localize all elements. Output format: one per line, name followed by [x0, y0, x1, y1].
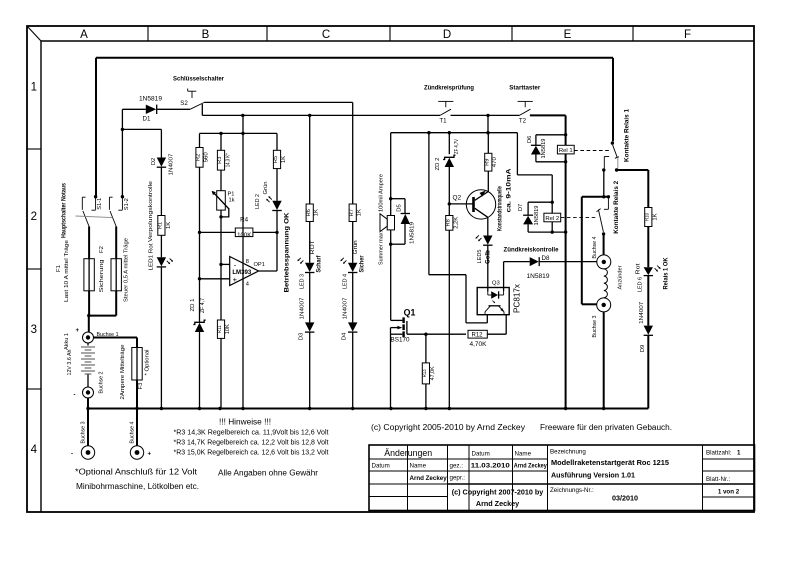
- LED6 rot: [647, 227, 649, 268]
- svg-text:*R3 14,3K Regelbereich ca. 11: *R3 14,3K Regelbereich ca. 11,9Volt bis …: [174, 428, 330, 437]
- svg-text:Zündkreiskontrolle: Zündkreiskontrolle: [504, 246, 559, 253]
- svg-text:(c) Copyright 2005-2010 by Ar: (c) Copyright 2005-2010 by Arnd Zeckey: [371, 423, 525, 432]
- wire S1-2 to D1: [121, 109, 123, 196]
- svg-text:Rel 2: Rel 2: [545, 216, 559, 222]
- svg-text:D9: D9: [640, 345, 646, 353]
- LED4 column: resistor R7: [349, 204, 356, 222]
- svg-text:3: 3: [31, 324, 37, 336]
- wire igniter return: [582, 196, 609, 198]
- svg-text:4: 4: [246, 282, 249, 288]
- svg-text:LED5: LED5: [477, 249, 483, 264]
- bottom bus wire: [88, 408, 648, 410]
- svg-text:D7: D7: [518, 204, 524, 211]
- svg-text:1K: 1K: [281, 156, 287, 163]
- svg-text:1N5819: 1N5819: [541, 139, 547, 159]
- resistor R1: [158, 216, 165, 236]
- title block: [369, 445, 755, 511]
- wire feed line R2/R3/R5: [200, 132, 278, 134]
- svg-text:gez.:: gez.:: [450, 463, 464, 470]
- top supply wire: [96, 57, 613, 59]
- fuse F1: [88, 227, 90, 259]
- svg-text:R7: R7: [349, 209, 355, 216]
- svg-text:100mil Ampere: 100mil Ampere: [379, 173, 385, 212]
- LED1 rot: [160, 235, 162, 257]
- svg-text:Betriebsspannung OK: Betriebsspannung OK: [284, 212, 291, 293]
- svg-text:T1: T1: [439, 118, 447, 125]
- svg-text:D1: D1: [143, 116, 151, 123]
- socket Buchse 4 (output): [136, 409, 138, 446]
- wire rel1 NO to R10: [617, 169, 649, 171]
- relay coil Rel 1: [557, 145, 574, 154]
- svg-text:Sicherung: Sicherung: [99, 260, 105, 293]
- diode D4 1N4007: [348, 322, 357, 331]
- svg-text:Arnd Zeckey: Arnd Zeckey: [514, 463, 547, 470]
- wire test line: [391, 132, 518, 134]
- diode D9 1N4007: [644, 326, 653, 335]
- svg-text:Arnd Zeckey: Arnd Zeckey: [410, 475, 448, 482]
- svg-text:F3: F3: [138, 382, 144, 390]
- svg-text:R11: R11: [217, 325, 223, 333]
- svg-text:Last 10 A mittel Träge: Last 10 A mittel Träge: [64, 239, 70, 302]
- relay 1 contact: [612, 58, 614, 142]
- svg-text:100K: 100K: [237, 232, 251, 239]
- wire S2 lower output: [201, 104, 203, 115]
- resistor R11: [217, 320, 224, 338]
- svg-text:S1-1: S1-1: [97, 198, 103, 210]
- svg-text:*R3 14,7K Regelbereich ca. 12: *R3 14,7K Regelbereich ca. 12,2 Volt bis…: [174, 438, 330, 447]
- svg-text:F1: F1: [56, 265, 62, 272]
- switch S1-1: [94, 195, 97, 198]
- wire buzzer to Q1 drain: [390, 244, 392, 320]
- svg-text:Datum: Datum: [472, 451, 490, 458]
- wire R3 column down: [220, 210, 222, 320]
- svg-text:4,70K: 4,70K: [470, 341, 488, 348]
- svg-text:LED 6: LED 6: [638, 276, 644, 292]
- wire R2 column down: [199, 167, 201, 322]
- socket Buchse 4 (igniter): [597, 255, 611, 269]
- igniter coil Anzuender: [604, 269, 608, 298]
- trimmer P1: [220, 170, 222, 191]
- svg-text:R6: R6: [306, 209, 312, 216]
- svg-text:R9: R9: [485, 159, 491, 166]
- svg-text:R3: R3: [217, 157, 223, 164]
- switch S1-2: [121, 195, 124, 198]
- node D2 branch: [121, 128, 124, 131]
- svg-text:R5: R5: [273, 156, 279, 163]
- wire op-amp output: [259, 270, 277, 272]
- svg-text:R2: R2: [196, 154, 202, 161]
- socket Buchse 3 (output): [87, 409, 89, 446]
- svg-text:F2: F2: [99, 246, 105, 253]
- resistor R2: [196, 148, 203, 168]
- wire Buchse1 to F3: [94, 337, 138, 339]
- resistor R9: [487, 171, 489, 191]
- svg-text:F: F: [684, 29, 691, 41]
- svg-text:LED 3: LED 3: [300, 273, 306, 289]
- svg-text:1K: 1K: [652, 213, 658, 220]
- key switch S2: [190, 102, 204, 109]
- LED5 gelb: [487, 217, 489, 235]
- PC817 optocoupler Q3: [477, 288, 509, 315]
- svg-text:1K: 1K: [356, 209, 362, 216]
- svg-text:* Optional: * Optional: [145, 350, 151, 376]
- LED3 column: resistor R6: [309, 115, 311, 204]
- svg-text:Rel 1: Rel 1: [559, 148, 573, 154]
- svg-text:Hauptschalter Notaus: Hauptschalter Notaus: [60, 182, 67, 238]
- svg-text:Akku 1: Akku 1: [64, 333, 70, 350]
- svg-text:Buchse 3: Buchse 3: [592, 315, 598, 338]
- svg-text:C: C: [322, 29, 330, 41]
- wire V+ rail through op-amp: [242, 115, 244, 408]
- svg-text:ZD 2: ZD 2: [435, 158, 441, 171]
- svg-text:LED 4: LED 4: [343, 273, 349, 289]
- svg-text:D6: D6: [527, 136, 533, 143]
- svg-text:14,3 K*: 14,3 K*: [226, 153, 232, 168]
- svg-text:Kontakte Relais 2: Kontakte Relais 2: [613, 180, 620, 234]
- svg-text:R8: R8: [446, 219, 452, 226]
- svg-text:Grün: Grün: [263, 182, 269, 195]
- wire staircase to Rel2: [516, 133, 518, 175]
- resistor R13: [425, 334, 427, 363]
- svg-text:1N5819: 1N5819: [527, 273, 551, 280]
- svg-text:1K: 1K: [166, 222, 172, 229]
- diode D7 1N5819: [528, 201, 552, 203]
- svg-text:Rot: Rot: [635, 263, 641, 274]
- svg-text:ZD 1: ZD 1: [190, 299, 196, 312]
- svg-text:T2: T2: [519, 118, 527, 125]
- svg-text:Sicher: Sicher: [358, 255, 365, 273]
- socket Buchse 3 (igniter): [597, 298, 611, 312]
- svg-text:!!! Hinweise !!!: !!! Hinweise !!!: [219, 418, 271, 427]
- svg-text:11.03.2010: 11.03.2010: [471, 463, 511, 470]
- resistor R3: [217, 150, 224, 170]
- svg-text:S1-2: S1-2: [124, 198, 130, 210]
- svg-text:S2: S2: [180, 100, 188, 107]
- svg-text:Schlüsselschalter: Schlüsselschalter: [173, 76, 224, 83]
- wire PC817 emitter return: [428, 133, 430, 275]
- wire left main vertical: [95, 58, 97, 196]
- svg-text:2,2K: 2,2K: [453, 217, 459, 229]
- svg-text:560: 560: [204, 152, 210, 163]
- svg-text:1N4007: 1N4007: [639, 302, 645, 324]
- svg-text:Bezeichnung: Bezeichnung: [550, 449, 586, 456]
- svg-text:1N4007: 1N4007: [168, 154, 174, 176]
- LED2 gruen: [276, 169, 278, 201]
- svg-text:Name: Name: [410, 463, 427, 470]
- diode D6 1N5819: [536, 134, 566, 136]
- svg-text:Zeichnungs-Nr.:: Zeichnungs-Nr.:: [550, 487, 594, 494]
- diode D1 1N5819: [122, 108, 145, 110]
- fuse F2: [115, 227, 117, 259]
- svg-text:Modellraketenstartgerät Roc 1: Modellraketenstartgerät Roc 1215: [551, 458, 669, 467]
- svg-text:Gelb: Gelb: [484, 250, 491, 264]
- LED3 rot Scharf: [309, 222, 311, 263]
- svg-text:LM393: LM393: [232, 269, 252, 276]
- svg-text:ca. 9-10mA: ca. 9-10mA: [506, 168, 513, 213]
- svg-text:+: +: [76, 327, 80, 334]
- svg-text:1N4007: 1N4007: [343, 298, 349, 320]
- svg-text:D: D: [443, 29, 451, 41]
- socket Buchse 1: [83, 332, 94, 343]
- resistor R10: [645, 208, 652, 227]
- svg-text:1 von 2: 1 von 2: [718, 489, 740, 496]
- transistor Q1 BS170: [402, 317, 404, 323]
- svg-text:gepr.:: gepr.:: [450, 475, 466, 482]
- zener ZD1: [195, 323, 204, 332]
- fuse F3: [136, 338, 138, 348]
- wire T2 output to relay rail: [530, 114, 566, 116]
- svg-text:B: B: [202, 29, 210, 41]
- svg-text:*Optional Anschluß für 12 Vo: *Optional Anschluß für 12 Volt: [75, 468, 198, 477]
- socket Buchse 2: [83, 387, 94, 398]
- svg-text:Steuer 0,5 A mittel Träge: Steuer 0,5 A mittel Träge: [123, 237, 129, 302]
- wire rel2 arm to Buchse 4: [603, 234, 605, 255]
- svg-text:Q1: Q1: [404, 308, 416, 318]
- svg-text:Änderungen: Änderungen: [384, 448, 432, 458]
- svg-text:Relais 1 OK: Relais 1 OK: [663, 257, 670, 290]
- battery Akku 1: [87, 343, 89, 346]
- svg-text:Zündkreisprüfung: Zündkreisprüfung: [424, 84, 474, 91]
- resistor R12: [468, 330, 487, 338]
- svg-text:-: -: [71, 451, 73, 458]
- svg-text:Name: Name: [515, 451, 532, 458]
- svg-text:(c) Copyright 2007-2010 by: (c) Copyright 2007-2010 by: [452, 488, 543, 497]
- drawing frame: [27, 26, 754, 512]
- svg-text:R13: R13: [422, 369, 428, 377]
- svg-text:ZF 4,7: ZF 4,7: [200, 298, 206, 313]
- svg-text:D3: D3: [299, 332, 305, 340]
- zener ZD2: [448, 133, 450, 155]
- svg-text:R10: R10: [645, 213, 651, 221]
- svg-text:2: 2: [31, 211, 37, 223]
- resistor R8: [446, 216, 453, 231]
- svg-text:*R3 15,0K Regelbereich ca. 12: *R3 15,0K Regelbereich ca. 12,6 Volt bis…: [174, 448, 330, 457]
- svg-text:D2: D2: [151, 158, 157, 165]
- svg-text:Summer max.: Summer max.: [379, 231, 385, 265]
- svg-text:Verpolungskontrolle: Verpolungskontrolle: [148, 180, 154, 242]
- svg-text:2Ampere Mittelträge: 2Ampere Mittelträge: [120, 344, 126, 400]
- svg-text:Buchse 3: Buchse 3: [81, 421, 87, 444]
- transistor Q2: [466, 190, 495, 219]
- svg-text:ROT: ROT: [310, 240, 316, 254]
- svg-text:Minibohrmaschine, Lötkolben et: Minibohrmaschine, Lötkolben etc.: [76, 482, 199, 491]
- svg-text:OP1: OP1: [254, 262, 265, 268]
- resistor R4 feedback: [200, 231, 278, 233]
- svg-text:1k: 1k: [229, 198, 235, 204]
- relay coil Rel 2: [551, 202, 553, 213]
- svg-text:D4: D4: [342, 332, 348, 340]
- frame labels: [31, 29, 691, 456]
- svg-text:8: 8: [246, 259, 249, 265]
- wire fuse outputs join: [89, 315, 116, 317]
- svg-text:Kontakte Relais 1: Kontakte Relais 1: [623, 108, 630, 162]
- wire T junction down: [487, 115, 489, 132]
- svg-text:Starttaster: Starttaster: [509, 84, 540, 91]
- diode D2 1N4007: [160, 129, 162, 157]
- wire opto cathode to D8: [503, 262, 505, 291]
- svg-text:Blatt-Nr.:: Blatt-Nr.:: [706, 476, 730, 483]
- wire S2 upper output: [204, 101, 352, 103]
- svg-text:+: +: [148, 451, 152, 458]
- wire op-amp inputs: [221, 263, 230, 265]
- svg-text:470: 470: [492, 156, 498, 167]
- buzzer symbol: [390, 199, 392, 216]
- svg-text:R12: R12: [471, 333, 483, 339]
- svg-text:D8: D8: [542, 255, 550, 262]
- svg-text:Arnd Zeckey: Arnd Zeckey: [476, 499, 519, 508]
- svg-text:BS170: BS170: [391, 337, 411, 344]
- svg-text:Buchse 4: Buchse 4: [130, 421, 136, 444]
- svg-text:Scharf: Scharf: [315, 255, 322, 273]
- svg-text:LED1 Rot: LED1 Rot: [149, 243, 155, 270]
- svg-text:+: +: [233, 275, 238, 284]
- resistor R5: [273, 150, 280, 168]
- relay 2 contact: [607, 197, 609, 210]
- LED4 gruen Sicher: [352, 222, 354, 263]
- wire Q1 source line to R12: [407, 333, 466, 335]
- svg-text:1N5819: 1N5819: [534, 206, 540, 226]
- svg-text:Buchse 4: Buchse 4: [592, 236, 598, 259]
- diode D3 1N4007: [305, 322, 314, 331]
- buzzer summer column: [390, 133, 392, 199]
- svg-text:Q2: Q2: [453, 195, 462, 202]
- svg-text:ZF 4,7V: ZF 4,7V: [454, 139, 460, 154]
- svg-text:47,0K: 47,0K: [430, 366, 436, 380]
- svg-text:Grün: Grün: [353, 240, 359, 254]
- svg-text:1: 1: [737, 450, 741, 457]
- svg-text:Alle Angaben ohne Gewähr: Alle Angaben ohne Gewähr: [218, 469, 318, 478]
- svg-text:Anzünder: Anzünder: [618, 265, 624, 289]
- svg-text:A: A: [80, 29, 88, 41]
- svg-text:Q3: Q3: [492, 281, 501, 287]
- svg-text:E: E: [564, 29, 572, 41]
- svg-text:Ausführung Version 1.01: Ausführung Version 1.01: [551, 471, 635, 480]
- svg-text:PC817x: PC817x: [513, 284, 522, 313]
- diode D5 bypass: [391, 198, 405, 200]
- svg-text:Freeware für den privaten Geba: Freeware für den privaten Gebauch.: [540, 423, 672, 432]
- svg-text:D5: D5: [397, 204, 403, 212]
- svg-text:Blattzahl:: Blattzahl:: [706, 450, 732, 457]
- svg-text:Buchse 2: Buchse 2: [98, 372, 104, 394]
- S1 mechanical link: [76, 216, 113, 218]
- svg-text:LED 2: LED 2: [255, 194, 261, 209]
- svg-text:Konstandstromquelle: Konstandstromquelle: [497, 186, 504, 231]
- svg-text:10K: 10K: [225, 324, 231, 334]
- svg-text:1N5819: 1N5819: [139, 96, 163, 103]
- wire rel1 NC to return net: [603, 170, 605, 197]
- svg-text:1N5819: 1N5819: [409, 222, 415, 244]
- svg-text:1N4007: 1N4007: [300, 298, 306, 320]
- op-amp U1 LM393: [230, 257, 259, 286]
- svg-text:4: 4: [31, 444, 38, 456]
- svg-text:R1: R1: [158, 222, 164, 229]
- svg-text:1K: 1K: [313, 209, 319, 216]
- svg-text:Datum: Datum: [372, 463, 390, 470]
- svg-text:03/2010: 03/2010: [612, 494, 638, 503]
- svg-text:12V 3.6 Ah: 12V 3.6 Ah: [67, 350, 73, 376]
- svg-text:R4: R4: [240, 216, 248, 223]
- svg-text:-: -: [74, 392, 76, 399]
- svg-text:1: 1: [31, 82, 37, 94]
